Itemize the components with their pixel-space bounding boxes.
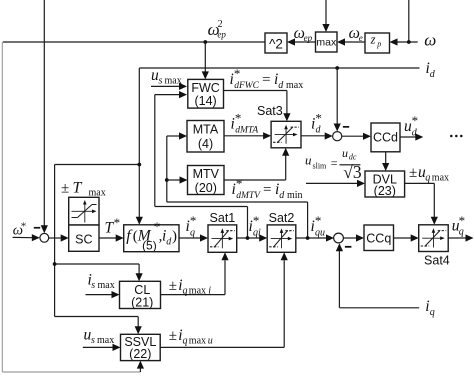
- svg-text:±: ±: [409, 165, 417, 181]
- svg-text:Sat4: Sat4: [424, 254, 450, 268]
- svg-text:T: T: [73, 180, 83, 197]
- svg-text:*: *: [315, 213, 322, 228]
- svg-text:(4): (4): [198, 137, 213, 151]
- svg-text:CCd: CCd: [373, 131, 398, 145]
- svg-text:max: max: [97, 335, 114, 346]
- svg-text:p: p: [376, 39, 381, 48]
- svg-text:MTA: MTA: [193, 123, 219, 137]
- svg-text:*: *: [412, 113, 419, 128]
- svg-text:min: min: [287, 190, 303, 201]
- svg-text:ep: ep: [304, 33, 313, 43]
- svg-text:q: q: [430, 307, 435, 318]
- svg-text:=: =: [263, 182, 271, 198]
- svg-text:FWC: FWC: [191, 81, 219, 95]
- svg-text:*: *: [236, 176, 243, 191]
- svg-text:d: d: [278, 80, 284, 91]
- svg-text:Sat3: Sat3: [257, 104, 283, 118]
- svg-text:slim: slim: [313, 162, 328, 171]
- svg-text:max: max: [316, 36, 337, 48]
- svg-text:*: *: [234, 66, 241, 81]
- svg-text:Sat1: Sat1: [210, 211, 236, 225]
- svg-text:dMTV: dMTV: [236, 191, 261, 201]
- svg-text:q: q: [183, 335, 188, 346]
- svg-text:(23): (23): [374, 184, 396, 198]
- svg-text:q: q: [183, 285, 188, 296]
- svg-text:MTV: MTV: [193, 167, 220, 181]
- svg-text:u: u: [305, 153, 312, 168]
- svg-text:max: max: [286, 80, 303, 91]
- svg-text:ep: ep: [217, 30, 226, 40]
- svg-text:q: q: [190, 228, 195, 239]
- svg-text:s: s: [91, 335, 95, 346]
- svg-text:±: ±: [169, 278, 177, 294]
- svg-text:q: q: [459, 226, 464, 237]
- svg-text:max: max: [98, 280, 115, 291]
- svg-text:z: z: [370, 32, 376, 46]
- svg-text:u: u: [208, 335, 213, 346]
- svg-text:qi: qi: [253, 228, 261, 239]
- svg-text:u: u: [342, 146, 348, 160]
- svg-text:d: d: [316, 125, 322, 136]
- svg-text:CCq: CCq: [366, 232, 391, 246]
- svg-text:*: *: [315, 111, 322, 126]
- svg-text:dMTA: dMTA: [235, 126, 258, 136]
- svg-text:s: s: [159, 76, 163, 87]
- svg-text:=: =: [331, 156, 338, 170]
- svg-text:(21): (21): [131, 296, 153, 310]
- svg-text:): ): [172, 229, 177, 245]
- svg-text:√3: √3: [343, 162, 362, 182]
- svg-text:max: max: [89, 188, 106, 199]
- svg-text:d: d: [430, 69, 436, 80]
- svg-text:*: *: [235, 111, 242, 126]
- svg-text:max: max: [189, 335, 206, 346]
- svg-text:±: ±: [169, 328, 177, 344]
- svg-text:dFWC: dFWC: [234, 81, 259, 91]
- svg-text:ω: ω: [424, 31, 436, 50]
- svg-text:max: max: [189, 285, 206, 296]
- svg-text:e: e: [359, 33, 363, 43]
- svg-text:s: s: [91, 280, 95, 291]
- svg-text:SC: SC: [75, 233, 92, 247]
- svg-text:i: i: [208, 285, 211, 296]
- svg-text:Sat2: Sat2: [269, 211, 295, 225]
- svg-text:max: max: [165, 76, 182, 87]
- svg-text:d: d: [279, 190, 285, 201]
- svg-text:*: *: [253, 213, 260, 228]
- svg-text:*: *: [21, 220, 27, 232]
- svg-text:(22): (22): [129, 347, 151, 361]
- svg-text:max: max: [432, 173, 449, 184]
- svg-text:(20): (20): [195, 181, 217, 195]
- svg-text:*: *: [114, 215, 121, 230]
- svg-text:2: 2: [218, 19, 223, 30]
- svg-text:^2: ^2: [269, 36, 283, 51]
- svg-text:q: q: [425, 173, 430, 184]
- svg-text:(5): (5): [142, 238, 157, 252]
- svg-text:±: ±: [61, 181, 69, 197]
- svg-text:(14): (14): [194, 94, 216, 108]
- svg-text:=: =: [262, 72, 270, 88]
- svg-text:qu: qu: [315, 228, 325, 239]
- svg-text:dc: dc: [349, 153, 357, 162]
- svg-text:*: *: [190, 213, 197, 228]
